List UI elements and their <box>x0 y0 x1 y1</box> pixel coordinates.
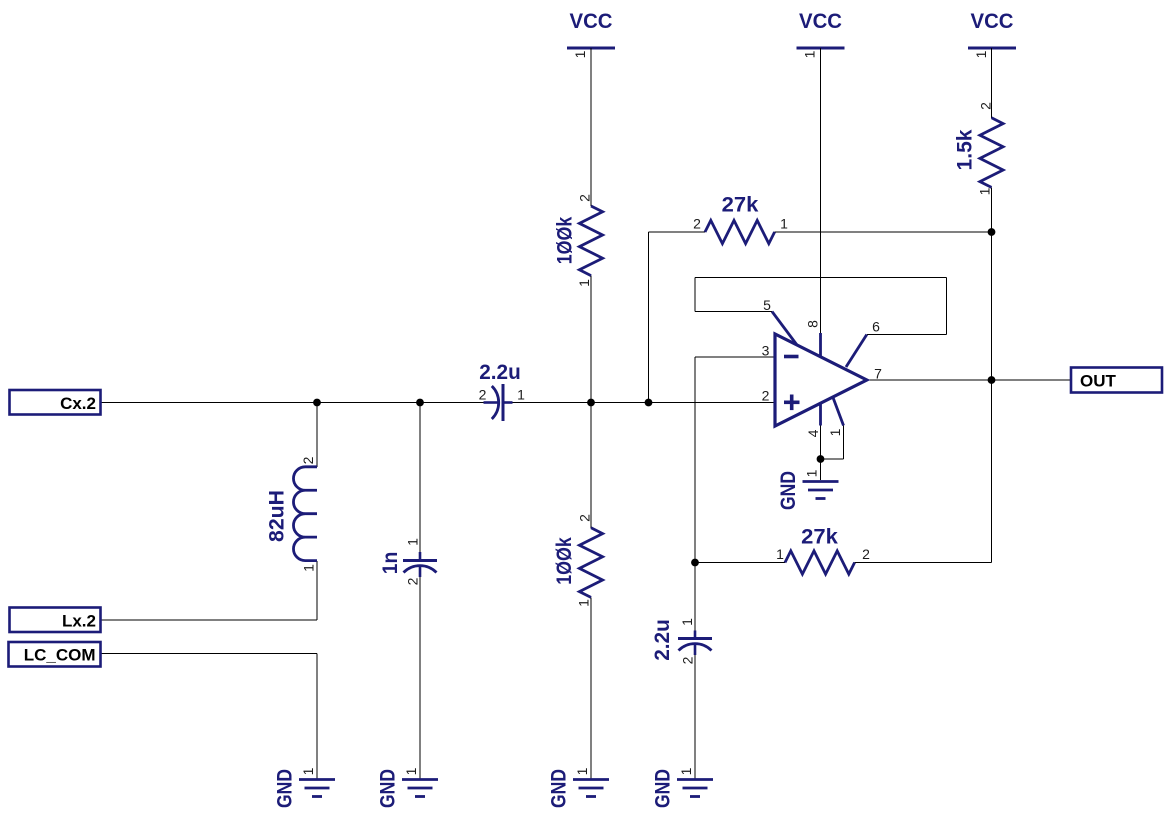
power symbol VCC (right, above 1.5k) <box>968 10 1016 48</box>
svg-text:1: 1 <box>804 469 820 477</box>
resistor 27k (lower feedback) <box>785 551 855 574</box>
svg-text:VCC: VCC <box>971 10 1014 33</box>
svg-text:1: 1 <box>827 428 843 436</box>
ground symbol GND (2.2u leg) <box>652 769 714 808</box>
resistor 100k (lower divider) <box>579 528 602 598</box>
svg-text:1: 1 <box>576 599 592 607</box>
op-amp U1 triangle body <box>775 334 867 426</box>
wire: feedback node down to output node <box>991 232 993 380</box>
wire: 27k top left lead <box>649 231 706 233</box>
svg-text:VCC: VCC <box>799 10 842 33</box>
svg-text:OUT: OUT <box>1080 372 1117 391</box>
wire: main horizontal net from Cx.2 to 2.2u cap <box>101 402 485 404</box>
svg-text:2: 2 <box>680 656 696 664</box>
op-amp pin 8 stub (V+) <box>819 333 822 357</box>
svg-text:1: 1 <box>678 767 694 775</box>
wire: node A down to inductor top <box>316 403 318 467</box>
junction: feedback node <box>691 559 699 567</box>
svg-text:1: 1 <box>301 564 317 572</box>
svg-text:1: 1 <box>802 50 818 58</box>
svg-text:6: 6 <box>872 319 880 335</box>
svg-text:GND: GND <box>548 769 571 808</box>
svg-text:1n: 1n <box>379 552 402 575</box>
capacitor 1n (vertical) <box>403 552 437 577</box>
svg-text:3: 3 <box>762 343 770 359</box>
svg-text:1: 1 <box>403 767 419 775</box>
svg-text:VCC: VCC <box>570 10 613 33</box>
junction: 1.5k bottom node <box>988 228 996 236</box>
wire: VCC middle down to op-amp pin 8 <box>820 48 822 333</box>
wire: feedback node to lower 27k left <box>695 562 785 564</box>
svg-text:1: 1 <box>517 387 525 403</box>
svg-text:1: 1 <box>300 767 316 775</box>
svg-text:Cx.2: Cx.2 <box>60 394 96 413</box>
svg-text:27k: 27k <box>801 526 838 549</box>
svg-text:2.2u: 2.2u <box>479 361 521 384</box>
svg-text:2: 2 <box>405 577 421 585</box>
wire: pin5 horizontal <box>695 311 772 313</box>
svg-text:GND: GND <box>652 769 675 808</box>
capacitor 2.2u (series input, horizontal) <box>484 384 513 421</box>
ground symbol GND (1n leg) <box>377 769 439 808</box>
svg-text:1ØØk: 1ØØk <box>554 216 577 264</box>
wire: feedback node down to 2.2u cap <box>694 563 696 632</box>
svg-text:1.5k: 1.5k <box>954 129 977 170</box>
wire: 27k top left down to main input node <box>648 232 650 403</box>
capacitor 2.2u (feedback bypass, vertical) <box>678 631 712 656</box>
wire: op-amp output to OUT label <box>867 379 1071 381</box>
wire: op-amp pin1 vertical <box>843 426 845 460</box>
wire: lower 27k right to output-column <box>855 562 992 564</box>
wire: 27k top right lead to 1.5k node <box>775 231 992 233</box>
wire: pin1 to ground dot horizontal <box>821 458 844 460</box>
hierarchical label Lx.2 <box>10 608 101 633</box>
svg-text:1: 1 <box>576 279 592 287</box>
svg-text:27k: 27k <box>722 194 759 217</box>
op-amp non-inverting input plus sign <box>784 395 800 411</box>
svg-text:7: 7 <box>874 366 882 382</box>
wire: main horizontal net from 2.2u cap to op-amp pin 2 <box>513 402 776 404</box>
svg-text:4: 4 <box>805 429 821 437</box>
junction: 27k top tap <box>645 399 653 407</box>
svg-text:2: 2 <box>862 546 870 562</box>
ground symbol GND (op-amp pin 4) <box>777 471 839 510</box>
wire: pin6 horizontal <box>867 334 947 336</box>
wire: pin5 loop top horizontal <box>695 277 947 279</box>
svg-text:2: 2 <box>479 387 487 403</box>
svg-text:2: 2 <box>693 216 701 232</box>
op-amp pin 4 stub (ground) <box>819 404 822 426</box>
junction: node B (1n tap) <box>416 399 424 407</box>
svg-text:1: 1 <box>780 216 788 232</box>
svg-text:2: 2 <box>978 102 994 110</box>
svg-text:1: 1 <box>679 618 695 626</box>
power symbol VCC (left, above 100k divider) <box>567 10 615 48</box>
hierarchical label OUT <box>1071 368 1162 393</box>
junction: divider node at 100k <box>587 399 595 407</box>
wire: LC_COM down to GND <box>316 654 318 780</box>
wire: VCC left down to 100k top <box>590 48 592 206</box>
wire: 100k bottom to GND <box>590 597 592 779</box>
wire: ground dot down to GND symbol <box>820 459 822 480</box>
svg-text:82uH: 82uH <box>266 490 289 542</box>
svg-text:1: 1 <box>405 538 421 546</box>
svg-text:1: 1 <box>973 50 989 58</box>
inductor 82uH <box>293 467 317 561</box>
svg-text:1: 1 <box>574 767 590 775</box>
svg-text:2: 2 <box>762 388 770 404</box>
wire: pin5 loop left vertical <box>694 278 696 312</box>
wire: VCC right down to 1.5k <box>991 48 993 118</box>
svg-text:GND: GND <box>274 769 297 808</box>
power symbol VCC (middle, op-amp supply) <box>797 10 845 48</box>
ground symbol GND (100k leg) <box>548 769 610 808</box>
hierarchical label Cx.2 <box>10 390 101 415</box>
wire: node B down to 1n cap <box>419 403 421 553</box>
svg-text:1: 1 <box>776 546 784 562</box>
ground symbol GND (LC_COM leg) <box>274 769 336 808</box>
svg-text:2: 2 <box>577 514 593 522</box>
wire: Lx.2 horizontal <box>101 619 318 621</box>
op-amp pin 6 stub <box>846 335 867 368</box>
svg-text:2: 2 <box>300 456 316 464</box>
junction: output node <box>988 376 996 384</box>
op-amp pin 5 stub <box>772 312 797 346</box>
op-amp pin 1 stub <box>833 398 844 426</box>
wire: pin5 loop right vertical <box>946 278 948 335</box>
svg-text:1: 1 <box>977 187 993 195</box>
resistor 1.5k <box>980 118 1003 188</box>
svg-text:Lx.2: Lx.2 <box>62 612 96 631</box>
wire: pin3 down to feedback node <box>694 357 696 563</box>
wire: 1.5k bottom to feedback node <box>991 187 993 232</box>
svg-text:LC_COM: LC_COM <box>24 646 96 665</box>
wire: 100k top to main node <box>590 276 592 528</box>
svg-text:1: 1 <box>572 50 588 58</box>
op-amp inverting input minus sign <box>784 355 799 359</box>
wire: pin3 horizontal <box>695 356 775 358</box>
hierarchical label LC_COM <box>9 642 101 667</box>
junction: op-amp ground dot <box>817 455 825 463</box>
resistor 27k (top feedback) <box>705 220 775 243</box>
svg-text:GND: GND <box>377 769 400 808</box>
resistor 100k (upper divider) <box>579 206 602 276</box>
wire: 1n cap to GND <box>419 577 421 780</box>
junction: node A (inductor tap) <box>313 399 321 407</box>
wire: LC_COM horizontal <box>101 653 318 655</box>
svg-text:GND: GND <box>777 471 800 510</box>
wire: output node down to lower 27k right wire <box>991 380 993 563</box>
svg-text:2: 2 <box>577 194 593 202</box>
svg-text:8: 8 <box>805 320 821 328</box>
svg-text:2.2u: 2.2u <box>651 619 674 661</box>
wire: inductor bottom to Lx.2 <box>316 561 318 620</box>
svg-text:1ØØk: 1ØØk <box>553 537 576 585</box>
svg-text:5: 5 <box>763 297 771 313</box>
wire: op-amp pin4 down to ground dot <box>820 426 822 460</box>
wire: 2.2u cap to GND <box>694 655 696 780</box>
